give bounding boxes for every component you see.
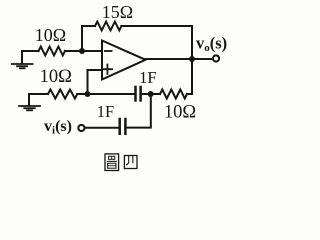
resistor R1 (10 ohm, inverting input) [39, 47, 66, 56]
wire node B down to R4 row [191, 59, 193, 94]
wire vi terminal to capacitor C2 [85, 127, 119, 129]
caption: character 圖 [105, 154, 119, 171]
wire R2 to output node [121, 26, 192, 59]
op-amp plus sign [103, 65, 112, 74]
resistor R4 (10 ohm, bottom right) [160, 90, 187, 99]
op-amp minus sign [105, 50, 112, 52]
node B junction dot (output node) [189, 56, 195, 62]
svg-text:vi(s): vi(s) [44, 118, 72, 137]
svg-text:vo(s): vo(s) [196, 33, 227, 54]
svg-text:1F: 1F [139, 68, 156, 87]
svg-text:10Ω: 10Ω [35, 25, 66, 45]
wire node D down and left to capacitor C2 [127, 94, 151, 128]
wire C1 to R4 [142, 93, 160, 95]
node C junction dot [85, 91, 91, 97]
node D junction dot [148, 91, 154, 97]
svg-text:10Ω: 10Ω [164, 103, 196, 123]
wire G2 to R3 [29, 93, 48, 95]
wire op-amp output to vo terminal [146, 58, 213, 60]
capacitor C2 (1F, bottom) [120, 119, 126, 134]
op-amp U1 triangle [102, 41, 146, 80]
resistor R3 (10 ohm, non-inverting path) [48, 90, 77, 99]
node A junction dot [79, 48, 85, 54]
svg-text:15Ω: 15Ω [102, 2, 133, 22]
ground G2 (mid-left) [19, 94, 40, 110]
ground G1 (top-left) [12, 51, 33, 68]
wire R1 to op-amp minus input [65, 50, 102, 52]
wire G1 to R1 [22, 50, 39, 52]
svg-text:10Ω: 10Ω [40, 67, 72, 87]
svg-text:1F: 1F [97, 102, 114, 121]
wire R3 to capacitor C1 [77, 93, 134, 95]
resistor R2 (15 ohm, feedback) [95, 22, 122, 31]
wire node C up to op-amp plus input [88, 70, 103, 94]
wire R4 to node B column [187, 93, 192, 95]
capacitor C1 (1F, middle) [136, 87, 141, 100]
terminal vo open circle [213, 55, 219, 61]
wire node A up to feedback row [82, 26, 95, 51]
caption: character 四 [124, 156, 137, 169]
terminal vi open circle [78, 125, 84, 131]
